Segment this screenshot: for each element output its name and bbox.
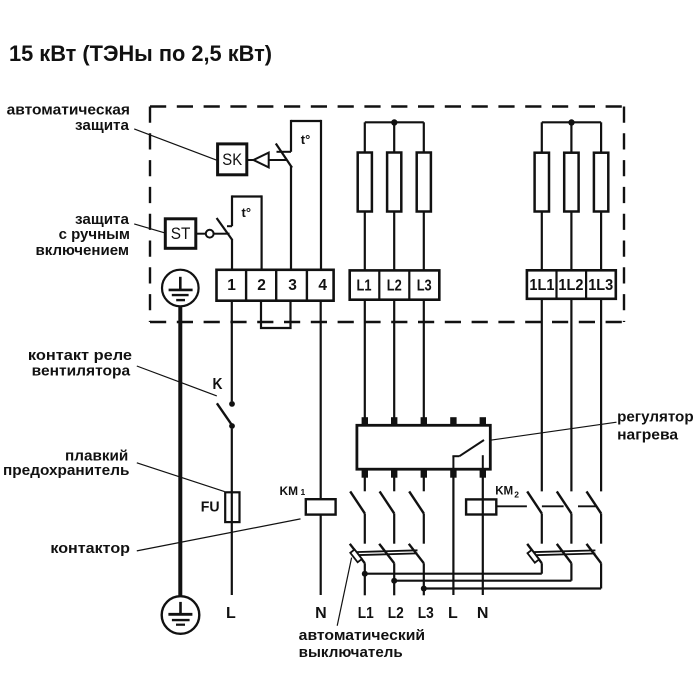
thermostat t1 right side (wire to terminal 4) (320, 120, 322, 271)
breaker QF1 pole 2 (379, 544, 397, 596)
wire bus to R6 (600, 122, 602, 153)
breaker QF2 pole 3 (587, 544, 602, 589)
thermostat t1 left side lower (wire to terminal 3) (290, 166, 292, 270)
contactor KM2 contact pole 2 (557, 491, 572, 543)
wire 1L2 block down to KM2 contact (570, 299, 572, 492)
svg-text:SK: SK (222, 151, 242, 169)
label N (bottom right) (477, 605, 489, 622)
breaker QF2 release box (527, 550, 539, 563)
tie wire phase 1 (365, 573, 542, 575)
svg-text:L3: L3 (417, 277, 432, 294)
wire terminal1 down to K (231, 301, 233, 402)
svg-text:1L2: 1L2 (558, 277, 583, 294)
svg-text:L1: L1 (357, 277, 372, 294)
regulator internal switch (452, 440, 484, 469)
contactor KM2 contact pole 3 (587, 491, 602, 543)
svg-text:L: L (448, 605, 458, 622)
thermostat t1 left side upper (290, 120, 292, 152)
svg-text:1L1: 1L1 (529, 277, 554, 294)
svg-text:KM: KM (495, 483, 513, 497)
thermostat t2 left side lower (wire to terminal 1) (231, 239, 233, 270)
contact K blade (217, 403, 232, 425)
dashed enclosure border (150, 107, 624, 323)
label L2 (bottom) (388, 605, 404, 622)
svg-text:4: 4 (318, 277, 327, 294)
arrowhead (actuation arrow) (253, 153, 268, 168)
breaker QF1 pole 1 (350, 544, 368, 596)
wire terminal4 down to N end (320, 301, 322, 595)
wire R1 to block (364, 212, 366, 271)
KM2 linkage line (496, 505, 596, 507)
leader to K contact (137, 366, 217, 396)
wire ST to circle (196, 233, 206, 235)
label L (bottom left) (226, 605, 236, 622)
node K lower (229, 423, 235, 429)
thermostat t2 left side upper (231, 195, 233, 226)
leader to SK (134, 129, 216, 160)
wire regulator pin5 to N (482, 478, 484, 596)
contactor KM1 contact pole 2 (380, 478, 395, 544)
thermostat t2 fixed contact tick (227, 225, 232, 227)
bus wire over heaters group2 (542, 121, 601, 123)
wire L3 block to regulator pin (423, 300, 425, 418)
heating element R4 (535, 153, 549, 212)
box SK (automatic protection) (218, 144, 247, 175)
svg-text:L2: L2 (388, 605, 404, 622)
leader to ST (134, 224, 164, 233)
node on bus group2 (568, 119, 574, 125)
label L3 (bottom) (418, 605, 434, 622)
svg-text:N: N (315, 605, 327, 622)
node K upper (229, 401, 235, 407)
label FU (201, 499, 220, 516)
regulator bottom pins (362, 469, 486, 478)
svg-text:3: 3 (288, 277, 297, 294)
wire bus to R3 (423, 122, 425, 153)
wire R2 to block (393, 212, 395, 271)
breaker QF2 pole 2 (557, 544, 572, 581)
label: автоматический выключатель (299, 627, 425, 661)
svg-text:нагрева: нагрева (617, 426, 679, 443)
wire R3 to block (423, 212, 425, 271)
svg-text:KM: KM (280, 484, 299, 498)
svg-text:1: 1 (227, 277, 236, 294)
breaker QF1 release box (350, 550, 362, 563)
svg-text:t°: t° (242, 205, 252, 220)
thermostat t1 blade (276, 144, 292, 168)
label: контактор (50, 540, 130, 557)
heating element R6 (594, 153, 608, 212)
breaker QF2 linkage bar (530, 550, 595, 555)
svg-text:защита: защита (75, 117, 130, 134)
label: плавкий предохранитель (3, 448, 129, 479)
ground symbol PE1 (in circle) (162, 270, 199, 307)
thermostat t1 box top (291, 120, 321, 122)
svg-text:L1: L1 (358, 605, 374, 622)
wire R5 to block (570, 212, 572, 271)
svg-text:15 кВт (ТЭНы по 2,5 кВт): 15 кВт (ТЭНы по 2,5 кВт) (9, 41, 272, 66)
label: защита с ручным включением (36, 211, 131, 259)
svg-text:2: 2 (257, 277, 266, 294)
wire bus to R5 (570, 122, 572, 153)
wire SK to arrow (247, 159, 254, 161)
terminal block X1 (1 2 3 4) (217, 270, 334, 301)
wire R4 to block (541, 212, 543, 271)
svg-text:вентилятора: вентилятора (32, 362, 131, 379)
wire circle to thermostat t2 blade (214, 233, 230, 235)
label: автоматическая защита (7, 102, 130, 135)
svg-text:L: L (226, 605, 236, 622)
title (9, 41, 272, 66)
svg-text:1: 1 (301, 487, 306, 497)
svg-text:N: N (477, 605, 489, 622)
bus wire over heaters group1 (365, 121, 424, 123)
wire K to L end (231, 429, 233, 595)
wire regulator pin4 to L (452, 478, 454, 596)
svg-text:регулятор: регулятор (617, 408, 694, 425)
label L1 (bottom) (358, 605, 374, 622)
breaker QF1 pole 3 (409, 544, 427, 596)
svg-text:L3: L3 (418, 605, 434, 622)
heating element R1 (358, 153, 372, 212)
wire L2 block to regulator pin (393, 300, 395, 418)
svg-text:K: K (213, 376, 223, 393)
svg-text:контактор: контактор (50, 540, 130, 557)
heating element R2 (387, 153, 401, 212)
label N (bottom, from terminal 4) (315, 605, 327, 622)
thermostat t1 fixed contact tick (277, 151, 292, 153)
regulator top pins (362, 417, 486, 426)
svg-text:FU: FU (201, 499, 220, 516)
label: регулятор нагрева (617, 408, 694, 443)
tie wire phase 3 (424, 587, 601, 589)
svg-text:1L3: 1L3 (588, 277, 613, 294)
label t° of t1 (301, 132, 311, 147)
wire 1L1 block down to KM2 contact (541, 299, 543, 492)
label KM2 (495, 483, 519, 499)
leader to circuit breaker QF1 (337, 558, 351, 626)
ground symbol PE2 (in circle) (162, 596, 200, 634)
wire L1 block to regulator pin (364, 300, 366, 418)
contactor KM2 contact pole 1 (527, 491, 542, 543)
leader to FU fuse (137, 463, 225, 492)
label: контакт реле вентилятора (28, 347, 132, 379)
fuse FU (225, 492, 239, 522)
terminal block X2 (L1 L2 L3) (350, 270, 440, 299)
svg-text:2: 2 (514, 489, 519, 499)
box ST (manual-reset protection) (165, 219, 196, 249)
thermostat t2 right side (wire to terminal 2) (261, 195, 263, 270)
terminal block X3 (1L1 1L2 1L3) (527, 270, 616, 299)
wire R6 to block (600, 212, 602, 271)
breaker QF1 linkage bar (355, 550, 418, 555)
svg-text:L2: L2 (387, 277, 402, 294)
wire bus to R2 (393, 122, 395, 153)
small circle (manual reset) (206, 230, 214, 238)
svg-text:автоматический: автоматический (299, 627, 425, 644)
label KM1 (280, 484, 306, 498)
svg-text:автоматическая: автоматическая (7, 102, 130, 119)
svg-text:ST: ST (171, 225, 191, 243)
thermostat t2 box top (232, 195, 262, 197)
contactor KM1 contact pole 1 (350, 478, 365, 544)
label t° of t2 (242, 205, 252, 220)
heating element R5 (564, 153, 578, 212)
wire arrow to thermostat blade (269, 159, 287, 161)
heating element R3 (417, 153, 431, 212)
label K (213, 376, 223, 393)
contactor coil KM1 (306, 499, 336, 514)
node on bus group1 (391, 119, 397, 125)
svg-text:выключатель: выключатель (299, 644, 403, 661)
wire 1L3 block down to KM2 contact (600, 299, 602, 492)
svg-text:t°: t° (301, 132, 311, 147)
contactor coil KM2 (466, 499, 496, 514)
svg-text:с ручным: с ручным (59, 226, 130, 243)
wire bus to R1 (364, 122, 366, 153)
wire bus to R4 (541, 122, 543, 153)
PE wire (thick) (178, 306, 182, 596)
jumper between terminals 2 and 3 (261, 301, 291, 328)
svg-text:предохранитель: предохранитель (3, 462, 129, 479)
label L (bottom right) (448, 605, 458, 622)
svg-text:включением: включением (36, 242, 130, 259)
tie wire phase 2 (394, 580, 571, 582)
breaker QF2 pole 1 (527, 544, 542, 574)
regulator box (357, 425, 490, 469)
contactor KM1 contact pole 3 (409, 478, 424, 544)
thermostat t2 blade (217, 218, 233, 240)
leader from regulator box (491, 422, 617, 440)
leader to KM1 coil (137, 519, 301, 551)
